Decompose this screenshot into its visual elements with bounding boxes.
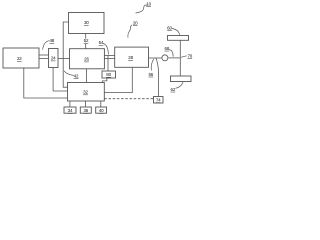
- svg-text:62: 62: [171, 87, 176, 92]
- svg-text:70: 70: [187, 53, 192, 58]
- svg-text:26: 26: [84, 57, 89, 62]
- svg-text:80: 80: [106, 72, 111, 77]
- leader 42: [64, 71, 74, 76]
- svg-text:28: 28: [128, 55, 133, 60]
- box 74: [154, 97, 164, 104]
- box 34: [64, 107, 76, 113]
- pump circle 68: [162, 55, 168, 61]
- squiggle arrow 20: [128, 25, 132, 38]
- svg-text:24: 24: [51, 56, 56, 61]
- svg-text:20: 20: [133, 20, 138, 25]
- wire box28 down into box32 right: [104, 67, 132, 92]
- svg-text:22: 22: [17, 56, 22, 61]
- leader 70: [181, 56, 187, 58]
- box 40: [96, 107, 107, 113]
- wire box26 to box32: [85, 69, 87, 83]
- svg-text:56: 56: [148, 72, 153, 77]
- wire box24 to box32: [53, 68, 67, 92]
- svg-text:54: 54: [99, 40, 104, 45]
- svg-text:40: 40: [99, 108, 104, 113]
- svg-text:52: 52: [84, 38, 89, 43]
- leader 54: [103, 44, 108, 55]
- wire box22 to box32: [24, 68, 68, 98]
- box 22: [3, 48, 39, 68]
- wire box80 to box32: [103, 78, 107, 83]
- box 30: [69, 13, 105, 34]
- leader 56: [151, 59, 154, 71]
- svg-text:48: 48: [49, 38, 54, 43]
- wire box28 to pump circle: [149, 57, 162, 59]
- svg-text:34: 34: [68, 108, 73, 113]
- wire 22-24 upper: [39, 54, 49, 56]
- leader 60: [172, 29, 180, 35]
- box 28: [115, 47, 149, 67]
- wire 26-28 upper: [104, 55, 114, 57]
- svg-text:74: 74: [156, 98, 161, 103]
- svg-text:32: 32: [83, 90, 88, 95]
- svg-text:68: 68: [165, 46, 170, 51]
- wire stub 32-36: [85, 101, 87, 107]
- wire down to box74: [156, 58, 159, 97]
- box 80: [102, 71, 116, 78]
- box 26: [70, 49, 105, 69]
- box 24: [49, 49, 59, 68]
- wire circle to main line: [168, 57, 180, 59]
- svg-text:36: 36: [83, 108, 88, 113]
- main right vertical line: [179, 40, 181, 76]
- box 32: [68, 83, 105, 102]
- wire dashed box32 to box74: [104, 98, 153, 100]
- wire 22-24 lower: [39, 58, 49, 60]
- box 62 bottom right: [171, 76, 192, 82]
- leader 48: [43, 41, 50, 50]
- wire 26-28 lower: [104, 58, 114, 60]
- box 36: [80, 107, 91, 113]
- wire 24-26: [58, 58, 70, 60]
- leader 68: [169, 50, 173, 57]
- svg-text:42: 42: [74, 73, 79, 78]
- svg-text:10: 10: [146, 1, 151, 6]
- wire stub 32-34: [69, 101, 71, 107]
- box 60 top right: [168, 36, 189, 41]
- wire from box30 left down to box32: [63, 22, 68, 87]
- squiggle arrow 10: [136, 5, 148, 13]
- wire box30 to box26: [85, 34, 87, 49]
- svg-text:30: 30: [84, 20, 89, 25]
- wire stub 32-40: [100, 101, 102, 107]
- leader 62: [176, 82, 184, 88]
- svg-text:60: 60: [167, 25, 172, 30]
- wire 26-28 tee down to box80: [107, 56, 109, 72]
